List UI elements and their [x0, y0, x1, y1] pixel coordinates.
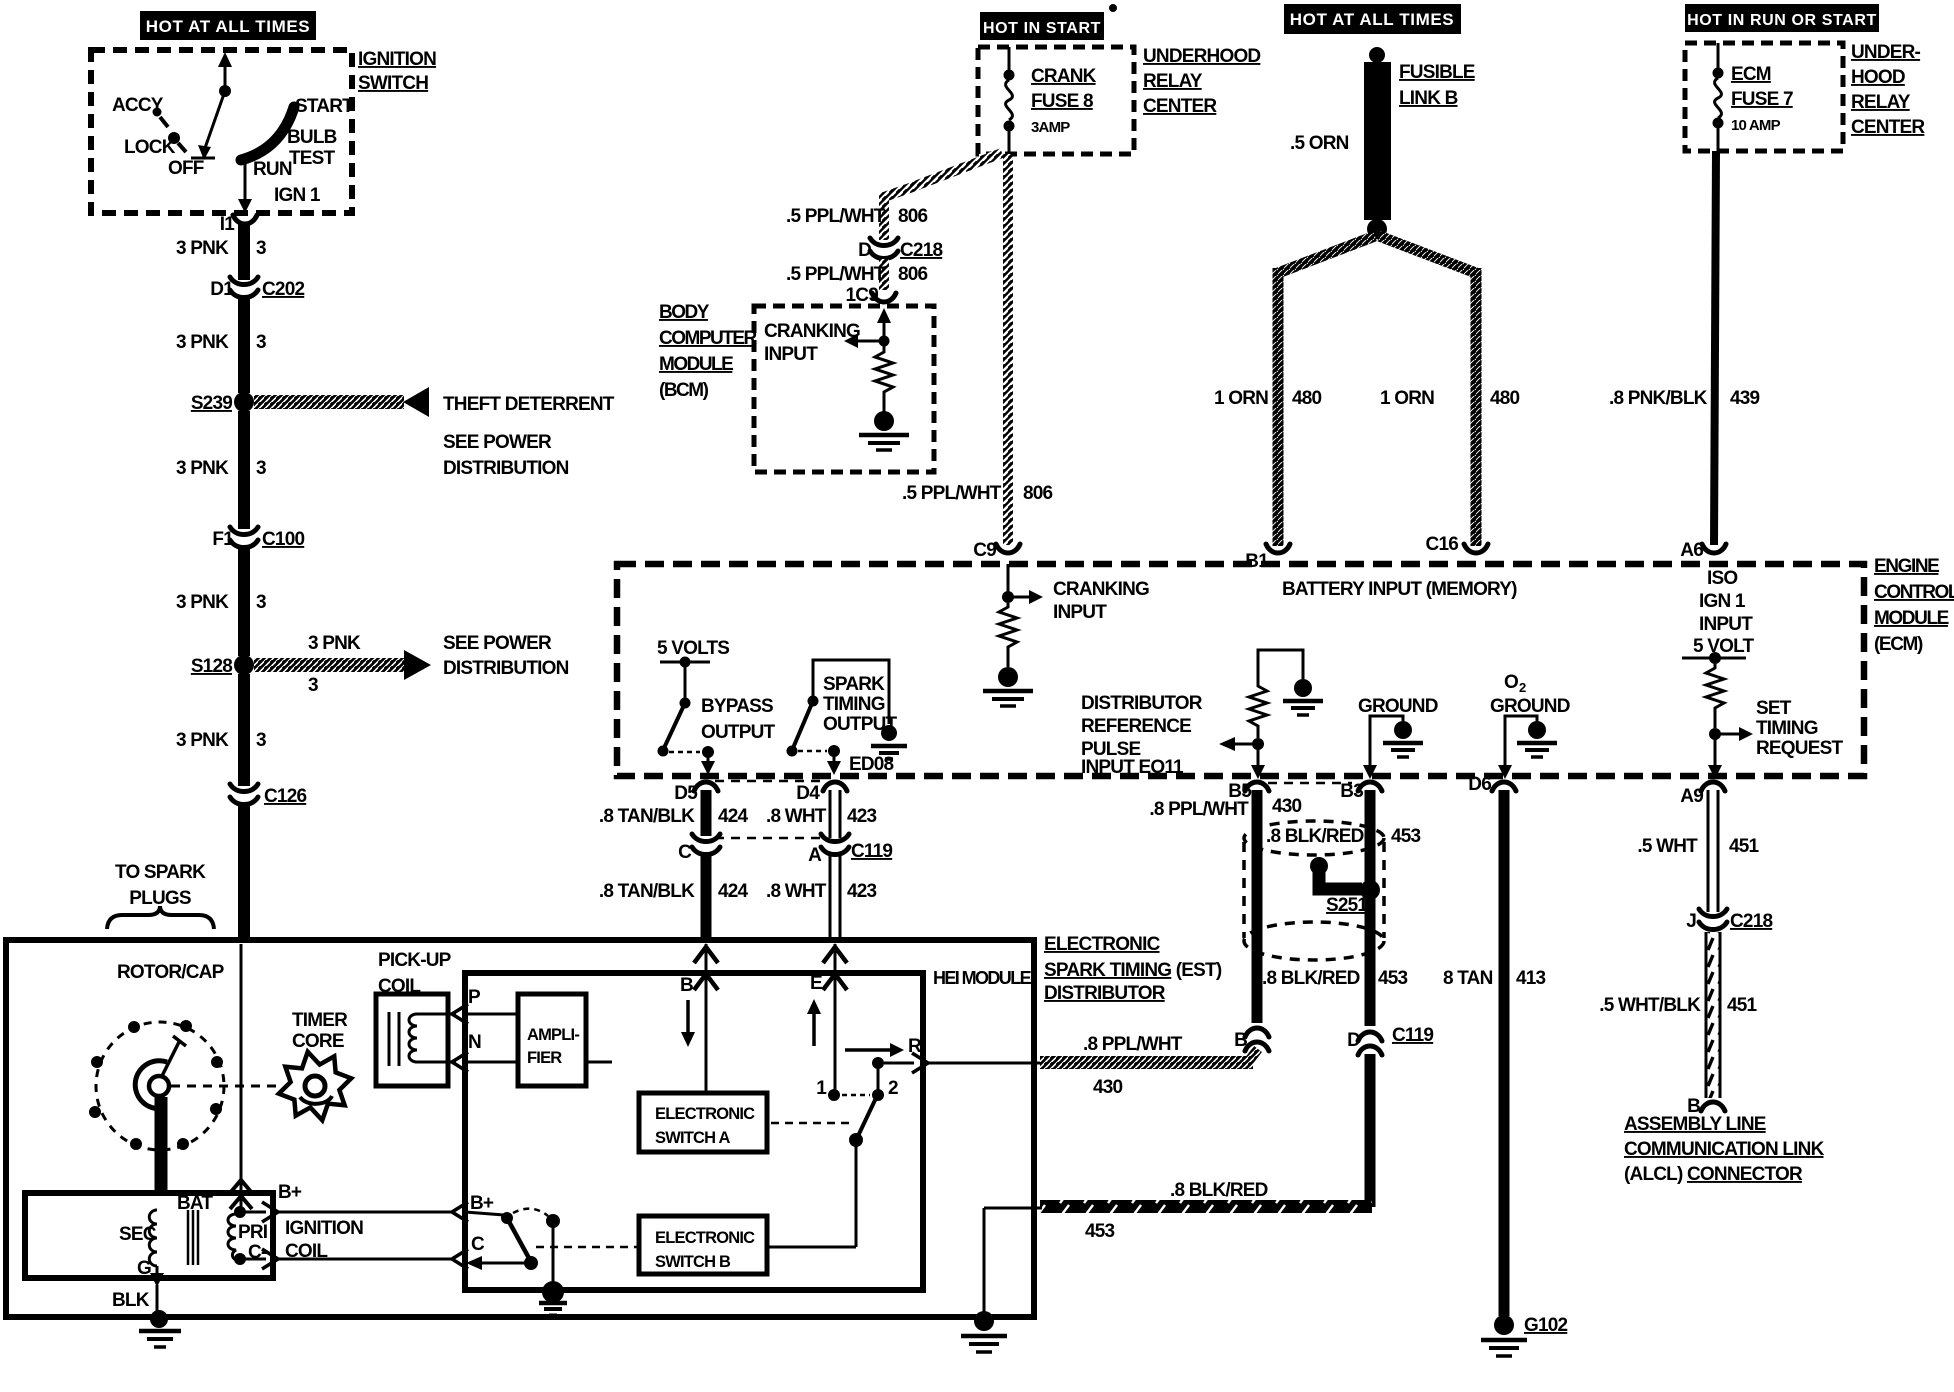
- svg-text:D5: D5: [674, 783, 698, 804]
- svg-text:(BCM): (BCM): [659, 380, 709, 401]
- svg-text:C218: C218: [1730, 911, 1772, 932]
- svg-text:.8 TAN/BLK: .8 TAN/BLK: [599, 881, 695, 902]
- svg-text:453: 453: [1085, 1221, 1115, 1242]
- svg-text:D: D: [858, 240, 871, 261]
- svg-text:CORE: CORE: [292, 1031, 344, 1052]
- svg-text:A9: A9: [1680, 786, 1703, 807]
- svg-text:.8 BLK/RED: .8 BLK/RED: [1170, 1180, 1268, 1201]
- svg-text:REQUEST: REQUEST: [1756, 738, 1843, 759]
- svg-text:COMMUNICATION LINK: COMMUNICATION LINK: [1624, 1139, 1825, 1160]
- svg-text:HOT AT ALL TIMES: HOT AT ALL TIMES: [146, 17, 310, 36]
- svg-text:2: 2: [888, 1078, 898, 1099]
- svg-text:COMPUTER: COMPUTER: [659, 328, 758, 349]
- svg-text:3 PNK: 3 PNK: [176, 730, 229, 751]
- svg-text:MODULE: MODULE: [659, 354, 733, 375]
- svg-text:806: 806: [898, 264, 928, 285]
- svg-text:TIMING: TIMING: [823, 694, 885, 715]
- svg-text:.5 ORN: .5 ORN: [1290, 133, 1349, 154]
- svg-text:(ECM): (ECM): [1874, 634, 1923, 655]
- svg-text:SEE POWER: SEE POWER: [443, 633, 552, 654]
- svg-text:O: O: [1504, 672, 1518, 693]
- svg-text:3 PNK: 3 PNK: [176, 238, 229, 259]
- svg-text:3 PNK: 3 PNK: [176, 458, 229, 479]
- svg-text:451: 451: [1727, 995, 1758, 1016]
- svg-text:.8 WHT: .8 WHT: [766, 881, 827, 902]
- svg-text:453: 453: [1391, 826, 1421, 847]
- svg-text:C100: C100: [262, 529, 304, 550]
- svg-text:424: 424: [718, 806, 749, 827]
- svg-text:I1: I1: [220, 214, 235, 235]
- svg-text:OFF: OFF: [168, 158, 204, 179]
- svg-text:SPARK: SPARK: [823, 674, 885, 695]
- svg-text:424: 424: [718, 881, 749, 902]
- svg-text:B: B: [680, 975, 693, 996]
- svg-text:B+: B+: [470, 1193, 494, 1214]
- svg-text:D6: D6: [1468, 774, 1491, 795]
- svg-text:HEI MODULE: HEI MODULE: [933, 968, 1032, 988]
- svg-text:423: 423: [847, 881, 877, 902]
- svg-text:5 VOLT: 5 VOLT: [1693, 636, 1754, 657]
- svg-text:.8 PNK/BLK: .8 PNK/BLK: [1609, 388, 1708, 409]
- svg-text:3: 3: [256, 458, 266, 479]
- svg-text:BYPASS: BYPASS: [701, 696, 773, 717]
- svg-text:3: 3: [308, 675, 318, 696]
- svg-text:RELAY: RELAY: [1851, 92, 1911, 113]
- svg-text:3 PNK: 3 PNK: [176, 592, 229, 613]
- svg-text:F1: F1: [212, 529, 234, 550]
- svg-text:CENTER: CENTER: [1143, 96, 1217, 117]
- svg-text:D1: D1: [210, 279, 234, 300]
- svg-text:1 ORN: 1 ORN: [1214, 388, 1268, 409]
- svg-text:G102: G102: [1524, 1315, 1568, 1336]
- svg-text:SEE POWER: SEE POWER: [443, 432, 552, 453]
- svg-text:ELECTRONIC: ELECTRONIC: [1044, 934, 1161, 955]
- svg-text:ROTOR/CAP: ROTOR/CAP: [117, 962, 225, 983]
- svg-text:480: 480: [1292, 388, 1322, 409]
- svg-text:8 TAN: 8 TAN: [1443, 968, 1493, 989]
- svg-text:.5 WHT/BLK: .5 WHT/BLK: [1599, 995, 1701, 1016]
- svg-text:.8 TAN/BLK: .8 TAN/BLK: [599, 806, 695, 827]
- svg-text:FUSIBLE: FUSIBLE: [1399, 62, 1475, 83]
- svg-text:430: 430: [1272, 796, 1302, 817]
- svg-text:ASSEMBLY LINE: ASSEMBLY LINE: [1624, 1114, 1766, 1135]
- svg-text:B: B: [1234, 1030, 1247, 1051]
- svg-text:IGN 1: IGN 1: [1699, 591, 1746, 612]
- svg-text:HOT AT ALL TIMES: HOT AT ALL TIMES: [1290, 10, 1454, 29]
- svg-text:.8 WHT: .8 WHT: [766, 806, 827, 827]
- svg-text:430: 430: [1093, 1077, 1123, 1098]
- svg-text:IGNITION: IGNITION: [358, 49, 436, 70]
- svg-text:BAT: BAT: [177, 1193, 213, 1214]
- svg-text:C: C: [678, 842, 692, 863]
- svg-text:PRI: PRI: [238, 1222, 268, 1243]
- svg-text:ISO: ISO: [1707, 568, 1737, 589]
- svg-text:IGN 1: IGN 1: [274, 185, 321, 206]
- svg-text:3 PNK: 3 PNK: [308, 633, 361, 654]
- svg-text:BULB: BULB: [287, 127, 337, 148]
- svg-text:A: A: [808, 845, 822, 866]
- svg-text:BATTERY INPUT (MEMORY): BATTERY INPUT (MEMORY): [1282, 579, 1517, 600]
- svg-text:.5 WHT: .5 WHT: [1637, 836, 1698, 857]
- svg-text:453: 453: [1378, 968, 1408, 989]
- svg-text:RELAY: RELAY: [1143, 71, 1203, 92]
- svg-text:C9: C9: [973, 540, 996, 561]
- svg-text:OUTPUT: OUTPUT: [701, 722, 776, 743]
- svg-text:BLK: BLK: [112, 1290, 150, 1311]
- svg-text:HOT IN RUN OR START: HOT IN RUN OR START: [1687, 12, 1877, 29]
- svg-text:INPUT: INPUT: [1699, 614, 1753, 635]
- svg-text:CRANKING: CRANKING: [1053, 579, 1149, 600]
- svg-text:SWITCH B: SWITCH B: [655, 1253, 731, 1271]
- svg-text:DISTRIBUTION: DISTRIBUTION: [443, 458, 569, 479]
- svg-text:.8 BLK/RED: .8 BLK/RED: [1266, 826, 1364, 847]
- svg-text:1: 1: [816, 1078, 827, 1099]
- svg-text:INPUT EO11: INPUT EO11: [1081, 757, 1184, 778]
- svg-text:3: 3: [256, 592, 266, 613]
- svg-text:UNDERHOOD: UNDERHOOD: [1143, 46, 1260, 67]
- svg-text:.8 PPL/WHT: .8 PPL/WHT: [1149, 799, 1249, 820]
- svg-text:INPUT: INPUT: [764, 344, 818, 365]
- svg-text:GROUND: GROUND: [1358, 696, 1438, 717]
- svg-text:SWITCH: SWITCH: [358, 73, 428, 94]
- svg-text:S251: S251: [1326, 895, 1368, 916]
- svg-text:B+: B+: [278, 1182, 302, 1203]
- svg-text:THEFT DETERRENT: THEFT DETERRENT: [443, 394, 615, 415]
- svg-text:.5 PPL/WHT: .5 PPL/WHT: [786, 206, 886, 227]
- svg-text:451: 451: [1729, 836, 1760, 857]
- svg-text:413: 413: [1516, 968, 1546, 989]
- svg-text:C202: C202: [262, 279, 304, 300]
- svg-text:PICK-UP: PICK-UP: [378, 950, 452, 971]
- svg-text:.5 PPL/WHT: .5 PPL/WHT: [902, 483, 1002, 504]
- svg-text:DISTRIBUTOR: DISTRIBUTOR: [1044, 983, 1166, 1004]
- svg-text:ELECTRONIC: ELECTRONIC: [655, 1229, 755, 1247]
- svg-text:CRANKING: CRANKING: [764, 321, 860, 342]
- svg-text:R: R: [908, 1036, 922, 1057]
- svg-text:(ALCL) CONNECTOR: (ALCL) CONNECTOR: [1624, 1164, 1803, 1185]
- svg-text:439: 439: [1730, 388, 1760, 409]
- svg-text:CONTROL: CONTROL: [1874, 582, 1954, 603]
- svg-text:10 AMP: 10 AMP: [1731, 117, 1781, 134]
- svg-text:C16: C16: [1426, 534, 1459, 555]
- svg-text:CENTER: CENTER: [1851, 117, 1925, 138]
- svg-text:3: 3: [256, 730, 266, 751]
- svg-text:5 VOLTS: 5 VOLTS: [657, 638, 729, 659]
- svg-text:806: 806: [898, 206, 928, 227]
- svg-text:D4: D4: [796, 783, 820, 804]
- svg-text:TEST: TEST: [289, 148, 336, 169]
- svg-text:MODULE: MODULE: [1874, 608, 1949, 629]
- svg-text:3: 3: [256, 332, 266, 353]
- svg-text:FUSE 7: FUSE 7: [1731, 89, 1793, 110]
- svg-text:FUSE 8: FUSE 8: [1031, 91, 1093, 112]
- svg-text:.8 BLK/RED: .8 BLK/RED: [1262, 968, 1360, 989]
- svg-text:REFERENCE: REFERENCE: [1081, 716, 1191, 737]
- svg-text:LOCK: LOCK: [124, 137, 176, 158]
- svg-text:N: N: [468, 1032, 481, 1053]
- svg-text:.8 PPL/WHT: .8 PPL/WHT: [1083, 1034, 1183, 1055]
- svg-text:C: C: [471, 1234, 485, 1255]
- svg-text:D: D: [1347, 1030, 1360, 1051]
- svg-text:ELECTRONIC: ELECTRONIC: [655, 1105, 755, 1123]
- svg-text:DISTRIBUTOR: DISTRIBUTOR: [1081, 693, 1203, 714]
- svg-text:S128: S128: [191, 656, 232, 677]
- svg-text:FIER: FIER: [527, 1049, 562, 1067]
- svg-text:SET: SET: [1756, 698, 1792, 719]
- svg-text:E: E: [810, 973, 822, 994]
- svg-text:ECM: ECM: [1731, 64, 1771, 85]
- svg-text:ENGINE: ENGINE: [1874, 556, 1939, 577]
- svg-text:P: P: [468, 987, 481, 1008]
- svg-text:ED08: ED08: [849, 754, 894, 775]
- svg-text:A6: A6: [1680, 540, 1703, 561]
- svg-text:HOT IN START: HOT IN START: [983, 20, 1101, 37]
- svg-text:3 PNK: 3 PNK: [176, 332, 229, 353]
- svg-text:COIL: COIL: [285, 1241, 328, 1262]
- svg-text:423: 423: [847, 806, 877, 827]
- svg-text:HOOD: HOOD: [1851, 67, 1905, 88]
- svg-text:3: 3: [256, 238, 266, 259]
- svg-text:C218: C218: [900, 240, 942, 261]
- svg-text:PLUGS: PLUGS: [129, 888, 191, 909]
- svg-text:BODY: BODY: [659, 302, 710, 323]
- svg-text:GROUND: GROUND: [1490, 696, 1570, 717]
- svg-text:TIMING: TIMING: [1756, 718, 1818, 739]
- svg-text:J: J: [1686, 911, 1696, 932]
- svg-text:806: 806: [1023, 483, 1053, 504]
- svg-text:C126: C126: [264, 786, 306, 807]
- svg-text:IGNITION: IGNITION: [285, 1218, 363, 1239]
- svg-text:TO SPARK: TO SPARK: [115, 862, 206, 883]
- svg-text:START: START: [295, 96, 354, 117]
- svg-text:.5 PPL/WHT: .5 PPL/WHT: [786, 264, 886, 285]
- svg-text:C119: C119: [851, 841, 892, 862]
- svg-text:1 ORN: 1 ORN: [1380, 388, 1434, 409]
- svg-text:DISTRIBUTION: DISTRIBUTION: [443, 658, 569, 679]
- svg-text:RUN: RUN: [253, 159, 292, 180]
- svg-text:SWITCH A: SWITCH A: [655, 1129, 730, 1147]
- svg-text:OUTPUT: OUTPUT: [823, 714, 898, 735]
- svg-text:TIMER: TIMER: [292, 1010, 348, 1031]
- svg-text:SPARK TIMING (EST): SPARK TIMING (EST): [1044, 960, 1222, 981]
- svg-text:3AMP: 3AMP: [1031, 119, 1070, 136]
- svg-text:480: 480: [1490, 388, 1520, 409]
- svg-text:S239: S239: [191, 393, 232, 414]
- svg-text:LINK B: LINK B: [1399, 88, 1458, 109]
- svg-text:AMPLI-: AMPLI-: [527, 1026, 579, 1044]
- svg-text:G: G: [137, 1258, 151, 1279]
- svg-text:C119: C119: [1392, 1025, 1433, 1046]
- svg-text:CRANK: CRANK: [1031, 66, 1097, 87]
- svg-text:INPUT: INPUT: [1053, 602, 1107, 623]
- svg-text:UNDER-: UNDER-: [1851, 42, 1921, 63]
- svg-text:2: 2: [1519, 680, 1526, 695]
